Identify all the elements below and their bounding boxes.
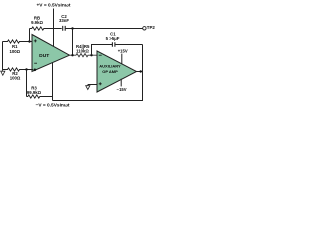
wire: V- supply line from DUT bottom edge down to bottom rail — [52, 63, 54, 101]
svg-text:9.9kΩ: 9.9kΩ — [31, 20, 43, 25]
node: auxiliary -input / C1 junction — [90, 54, 92, 56]
resistor R3 zigzag to V- line — [27, 95, 53, 98]
svg-text:33nF: 33nF — [59, 18, 69, 23]
node: junction of R2, R3 and DUT -input — [25, 68, 27, 70]
node J2: output junction — [71, 54, 73, 56]
resistor R1 zigzag on +input wire — [3, 40, 33, 43]
wire: DUT output to auxiliary -input — [70, 54, 77, 56]
svg-text:DUT: DUT — [39, 53, 49, 59]
svg-text:5 >5μF: 5 >5μF — [106, 36, 120, 41]
wire: vertical from -input node down to R3 — [26, 70, 28, 97]
svg-text:110kΩ: 110kΩ — [76, 49, 89, 54]
wire: vertical from J1 down to DUT output node — [72, 29, 74, 56]
wire: bottom rail from V- line to auxiliary output — [53, 45, 143, 101]
svg-text:TP2: TP2 — [147, 25, 156, 30]
wire: V+ supply stub from +V label down to DUT top edge (crosses feedback wire) — [53, 9, 55, 47]
svg-text:+V = 0.5Vsinωt: +V = 0.5Vsinωt — [37, 2, 71, 8]
svg-text:100Ω: 100Ω — [10, 75, 21, 80]
supply -15V stub and label — [120, 79, 122, 87]
wire: auxiliary +input to ground — [88, 84, 97, 86]
wire: left rail vertical connecting R1 and R2 left ends — [2, 42, 4, 70]
resistor RB zigzag on feedback path — [30, 27, 62, 30]
capacitor C1 plates — [112, 42, 115, 47]
node: junction of R1, RB feedback and DUT +input — [28, 40, 30, 42]
DUT +input marker — [34, 39, 37, 42]
wire: from C2 to TP2 with junction J1 — [65, 28, 143, 30]
supply +15V stub and label — [121, 54, 123, 65]
wire: auxiliary output to feedback rail — [137, 71, 143, 73]
wire: vertical from +input node up to RB/C2 feedback path — [29, 29, 31, 42]
node: dot at DUT -input corner — [34, 69, 37, 72]
capacitor C2 plates — [63, 26, 65, 31]
svg-text:−V = 0.5Vsinωt: −V = 0.5Vsinωt — [36, 102, 70, 108]
op-amp DUT triangle — [32, 35, 70, 72]
svg-text:OP AMP: OP AMP — [102, 69, 118, 74]
svg-text:−15V: −15V — [117, 87, 127, 92]
node: auxiliary output junction — [140, 70, 142, 72]
test point TP2 terminal circle — [143, 27, 146, 30]
auxiliary +input marker — [99, 82, 102, 85]
ground symbol at left rail — [1, 70, 5, 76]
DUT -input marker — [34, 62, 37, 64]
node J1: feedback tap to DUT output — [71, 27, 73, 29]
svg-text:99.9kΩ: 99.9kΩ — [27, 90, 42, 95]
op-amp U2 auxiliary triangle — [97, 51, 137, 92]
auxiliary -input marker — [99, 54, 102, 56]
svg-text:100Ω: 100Ω — [9, 49, 20, 54]
resistor R4||R5 zigzag — [76, 54, 97, 57]
wire: C1 integrator loop — [92, 45, 143, 56]
ground symbol at auxiliary +input — [86, 85, 90, 90]
svg-text:+15V: +15V — [118, 49, 128, 54]
resistor R2 zigzag on -input wire — [3, 68, 34, 71]
